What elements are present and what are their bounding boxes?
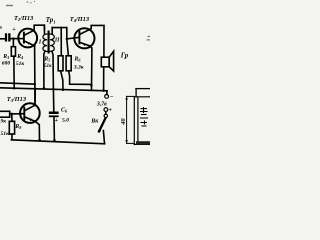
svg-text:R4: R4: [16, 54, 23, 60]
switch Vk lower contact: [98, 129, 101, 132]
wire T3 collector up to rail B: [34, 89, 36, 105]
node bus / C6: [53, 139, 56, 142]
wire winding II bottom down to rail B and C6: [52, 51, 54, 88]
svg-text:51к: 51к: [1, 131, 10, 137]
svg-text:R6: R6: [74, 56, 82, 62]
wire R5 bottom to rail B: [61, 71, 63, 90]
node base T2 junction: [12, 37, 14, 39]
resistor R8: [9, 121, 14, 134]
svg-text:3,7в: 3,7в: [96, 101, 107, 107]
speaker Gr box: [101, 57, 109, 67]
case box lid top (right figure): [136, 88, 150, 90]
svg-text:9к: 9к: [1, 119, 7, 125]
battery plus terminal: [104, 108, 108, 112]
wire R6 bottom corner right to T4 emitter line: [69, 71, 92, 85]
resistor R7 (left edge, horizontal): [0, 111, 10, 117]
capacitor C6 plates: [49, 112, 59, 118]
wire T2 collector up and right to transformer: [34, 25, 44, 30]
resistor R3: [11, 47, 15, 57]
wire plus terminal to switch contact: [105, 112, 107, 114]
switch Vk contact: [104, 114, 107, 117]
wire T3 emitter down to bottom bus: [35, 121, 40, 140]
wire winding II top to T4 base: [52, 28, 79, 39]
svg-text:+: +: [108, 107, 112, 114]
svg-text:R5: R5: [43, 57, 50, 63]
wire C6 down to bottom bus: [53, 117, 55, 140]
svg-text:+: +: [12, 27, 16, 33]
wire junction down to R6 top: [67, 40, 69, 56]
svg-text:Вк: Вк: [90, 118, 99, 124]
svg-text:Т4/П13: Т4/П13: [70, 16, 90, 23]
dimension line 40 (right figure): [125, 96, 133, 143]
transistor T4: [74, 28, 94, 48]
wire from top horizontal down to R5 top: [60, 28, 62, 56]
wire cap to base T2: [11, 38, 23, 40]
bottom bus wire: [11, 140, 104, 144]
node rail B / speaker: [102, 89, 105, 92]
case box inner marks: [141, 108, 148, 127]
switch Vk lever: [99, 118, 105, 131]
svg-text:Т3/П13: Т3/П13: [7, 96, 27, 103]
resistor R5 (left box): [58, 56, 63, 71]
speaker Gr horn: [109, 51, 113, 71]
svg-text:+: +: [55, 118, 59, 124]
wire input from left edge: [0, 38, 5, 40]
rail A left (y=83): [0, 83, 35, 84]
resistor R6 (right box): [66, 56, 71, 71]
svg-text:5,0: 5,0: [62, 118, 69, 124]
wire bus up to R8: [11, 134, 13, 140]
node T3 base junction: [11, 113, 13, 115]
svg-text:Т2/П13: Т2/П13: [14, 15, 34, 22]
wire R3 to rail B: [13, 56, 15, 88]
svg-text:R3: R3: [2, 54, 9, 60]
wire T4 collector up right and down to speaker: [89, 25, 104, 57]
case box wall (right figure): [134, 97, 150, 145]
wire T4 emitter down to rail B: [90, 46, 92, 91]
transistor T3: [20, 103, 40, 123]
wire R8 top to base junction T3: [11, 114, 13, 121]
node rail B / R3: [13, 87, 16, 90]
node rail B / C6 wire: [52, 88, 55, 91]
svg-text:680: 680: [2, 61, 11, 67]
wire winding I top stub: [43, 25, 45, 34]
wire switch to bottom bus: [103, 131, 104, 144]
transformer Tr1 core: [48, 32, 50, 53]
wire rail B down to C6: [52, 89, 54, 112]
svg-text:C6: C6: [61, 108, 68, 114]
svg-text:Гр: Гр: [120, 53, 129, 60]
transformer Tr1 winding I: [43, 34, 47, 51]
transistor T2: [18, 29, 37, 48]
node rail B / T2-T3 vertical: [34, 87, 37, 90]
svg-text:51к: 51к: [44, 64, 52, 69]
transformer Tr1 winding II: [50, 34, 54, 51]
svg-text:−: −: [110, 94, 114, 101]
node rail B / winding I wire: [43, 87, 46, 90]
capacitor C (input, polarized): [5, 33, 11, 41]
svg-text:R8: R8: [14, 124, 22, 130]
wire R7 to T3 base: [10, 113, 23, 115]
wire winding II top stub: [51, 28, 53, 35]
battery minus terminal: [105, 95, 109, 99]
rail B (y=88): [0, 88, 107, 91]
wire speaker bottom to rail B: [103, 67, 105, 91]
svg-text:3,3к: 3,3к: [73, 65, 84, 71]
speck top left: [0, 1, 150, 41]
wire rail B corner down to battery minus: [106, 91, 108, 95]
case box bottom dark wall: [136, 141, 150, 144]
svg-text:40: 40: [120, 118, 127, 126]
wire junction down to R3: [12, 39, 14, 47]
wire T2 emitter down through rails to T3 collector: [34, 46, 36, 104]
node T4 emitter / R6 corner: [90, 84, 93, 87]
wire winding I bottom down to rail B: [44, 51, 45, 88]
svg-text:II: II: [54, 38, 60, 44]
svg-text:51к: 51к: [16, 61, 25, 67]
node T4 base junction: [66, 38, 68, 40]
node bus / T3 emitter: [38, 139, 41, 142]
